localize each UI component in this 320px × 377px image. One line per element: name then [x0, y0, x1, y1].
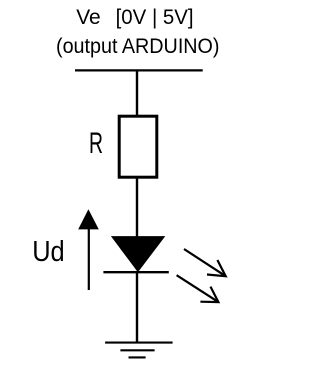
wire top rail [75, 69, 203, 71]
voltage arrow Ud [78, 209, 99, 290]
svg-text:Ud: Ud [32, 236, 64, 268]
svg-text:[0V | 5V]: [0V | 5V] [116, 5, 194, 29]
LED emission arrow 1 [184, 249, 226, 276]
resistor R [119, 116, 157, 177]
LED emission arrow 2 [177, 275, 219, 302]
svg-text:Ve: Ve [76, 5, 101, 29]
ground [105, 343, 173, 358]
wire rail to resistor [136, 70, 138, 116]
svg-text:(output ARDUINO): (output ARDUINO) [56, 34, 220, 58]
svg-text:R: R [89, 127, 103, 160]
LED D1 cathode bar [103, 271, 168, 273]
LED D1 anode triangle [111, 236, 165, 272]
wire resistor to LED [136, 177, 138, 238]
wire LED to ground [136, 272, 138, 342]
